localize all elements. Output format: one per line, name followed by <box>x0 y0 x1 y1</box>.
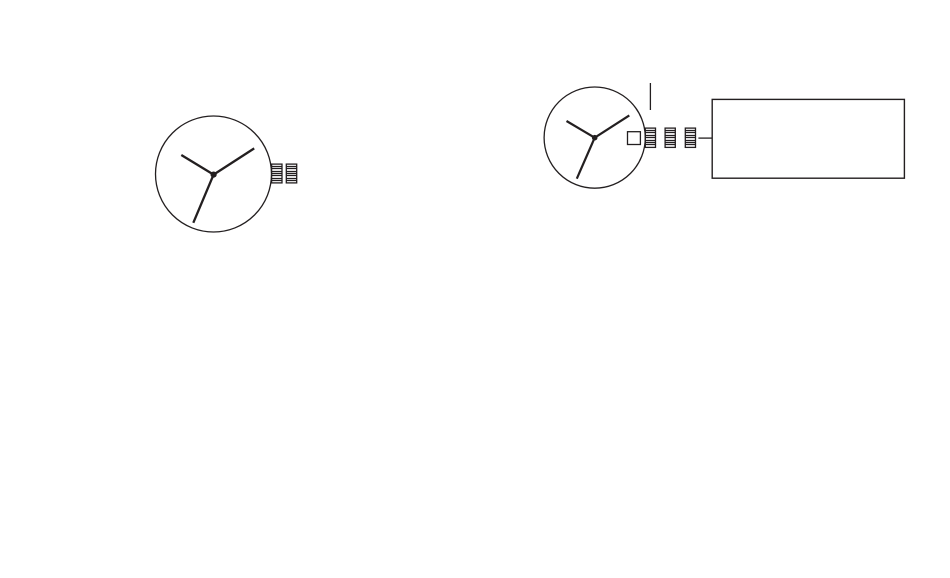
connector line from crown to callout box <box>698 137 712 139</box>
left watch hour hand <box>181 155 213 175</box>
left watch crown position 2 <box>286 164 296 183</box>
right watch hour hand <box>567 121 595 138</box>
right watch crown position 1 <box>665 128 675 147</box>
left watch dial <box>156 116 272 232</box>
right watch minute hand <box>595 115 630 137</box>
right watch dial <box>544 87 645 188</box>
right watch second hand <box>577 138 595 179</box>
left watch minute hand <box>214 148 255 174</box>
right watch date window square <box>628 132 641 145</box>
pointer line above crown <box>649 83 651 110</box>
left watch second hand <box>193 175 213 223</box>
right watch crown position 0 <box>645 128 655 147</box>
callout box <box>712 99 904 178</box>
right watch center pivot <box>592 135 598 141</box>
left watch crown position 1 <box>272 164 282 183</box>
right watch crown position 2 <box>685 128 695 147</box>
left watch center pivot <box>211 172 217 178</box>
